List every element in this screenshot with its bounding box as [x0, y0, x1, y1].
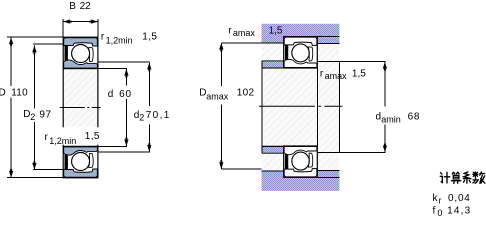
housing bottom inner surface lines [262, 171, 340, 178]
svg-text:110: 110 [11, 87, 28, 98]
svg-text:1,2min: 1,2min [49, 136, 76, 146]
dimension D 110: line [7, 37, 63, 178]
air gap hatch right top [317, 43, 339, 62]
svg-text:0,04: 0,04 [448, 193, 471, 204]
dimension D2 97: arrows [32, 46, 36, 55]
housing top band (blue) [262, 24, 340, 43]
svg-text:amax: amax [233, 28, 256, 38]
svg-text:97: 97 [39, 109, 51, 120]
shaft shoulder strip bottom left (blue) [262, 146, 284, 153]
char ji [440, 173, 442, 183]
dimension D2 97: line [33, 44, 64, 170]
shaft lines [262, 61, 339, 153]
bearing section top right (white) [284, 37, 317, 67]
svg-text:22: 22 [80, 1, 92, 12]
dimension damin: extension lines [339, 61, 385, 63]
dimension damin 68: line [339, 62, 385, 153]
bearing section top outline [63, 37, 98, 68]
svg-text:60: 60 [119, 89, 132, 100]
svg-text:1,5: 1,5 [85, 131, 100, 142]
shaft sleeve hatch bottom right [317, 146, 339, 152]
air gap hatch right bottom [317, 153, 339, 171]
dimension D2 97: extension lines [33, 43, 64, 45]
dimension d2 70,1: arrows [147, 63, 151, 72]
air gap hatch left [262, 43, 284, 61]
bearing bottom right outline [284, 146, 318, 177]
dimension d 60: extension lines [98, 68, 127, 70]
bearing top right outline [284, 37, 318, 68]
shaft step at bearing face [316, 68, 318, 146]
svg-text:2: 2 [30, 112, 35, 122]
shaft left end face [261, 61, 263, 153]
centerline left view [60, 107, 101, 109]
dimension d2 70,1: line [98, 62, 149, 152]
bearing section bottom (blue, mirrored) [64, 147, 98, 177]
dimension Damax: arrows [219, 43, 223, 52]
dimension damin: arrows [383, 62, 387, 71]
bearing section bottom right (white, mirrored) [284, 147, 317, 177]
svg-text:0: 0 [437, 208, 442, 218]
dimension B: dimension line [63, 21, 98, 23]
shaft right end face [338, 62, 340, 153]
svg-text:68: 68 [408, 111, 421, 122]
svg-text:f: f [433, 206, 436, 217]
dimension d2 70,1: extension lines [98, 61, 149, 63]
housing top inner surface lines [262, 36, 340, 43]
bearing section bottom outline [63, 146, 98, 177]
char suan [452, 172, 459, 174]
shaft seat line top [262, 67, 317, 69]
char shu [473, 172, 478, 177]
dimension d 60: line [98, 69, 127, 147]
shaft column right edge [97, 69, 99, 147]
svg-text:d: d [108, 89, 114, 100]
dimension B: arrows [63, 19, 72, 23]
svg-text:B: B [69, 1, 76, 12]
dimension Damax: extension lines [221, 42, 261, 44]
svg-text:1,5: 1,5 [352, 68, 366, 79]
dimension D 110: extension lines [7, 36, 63, 38]
shaft column hatch [63, 69, 98, 147]
shaft body hatch [262, 68, 339, 146]
shaft column left edge [62, 69, 64, 147]
knockout for bottom r label [42, 127, 101, 144]
dimension B: extension lines [63, 19, 98, 37]
shaft sleeve hatch top right [317, 62, 339, 68]
sleeve surface bottom right [317, 152, 339, 154]
shaft seat line bottom [262, 145, 317, 147]
svg-text:2: 2 [139, 112, 144, 122]
shaft shoulder strip top left (blue) [262, 61, 284, 68]
svg-text:amin: amin [381, 115, 401, 125]
svg-text:70,1: 70,1 [146, 110, 171, 121]
air gap hatch left bottom [262, 153, 284, 171]
centerline right view [259, 105, 342, 107]
svg-text:1,2min: 1,2min [106, 35, 133, 45]
svg-text:14,3: 14,3 [447, 206, 471, 217]
dimension Damax 102: line [221, 43, 261, 169]
dimension d 60: arrows [124, 69, 128, 78]
svg-text:r: r [439, 196, 442, 206]
dimension D 110: arrows [9, 37, 13, 46]
housing bottom band (blue) [262, 171, 340, 191]
svg-text:102: 102 [237, 88, 255, 99]
svg-text:amax: amax [206, 92, 229, 102]
svg-text:amax: amax [325, 71, 348, 81]
svg-text:1,5: 1,5 [142, 31, 157, 42]
sleeve surface top right [317, 61, 339, 63]
svg-text:D: D [0, 87, 6, 98]
chinese title: 计算系数 (hand drawn) [440, 172, 485, 183]
svg-text:1,5: 1,5 [269, 26, 283, 37]
char xi [463, 172, 471, 179]
bearing section top (blue) [64, 38, 98, 68]
